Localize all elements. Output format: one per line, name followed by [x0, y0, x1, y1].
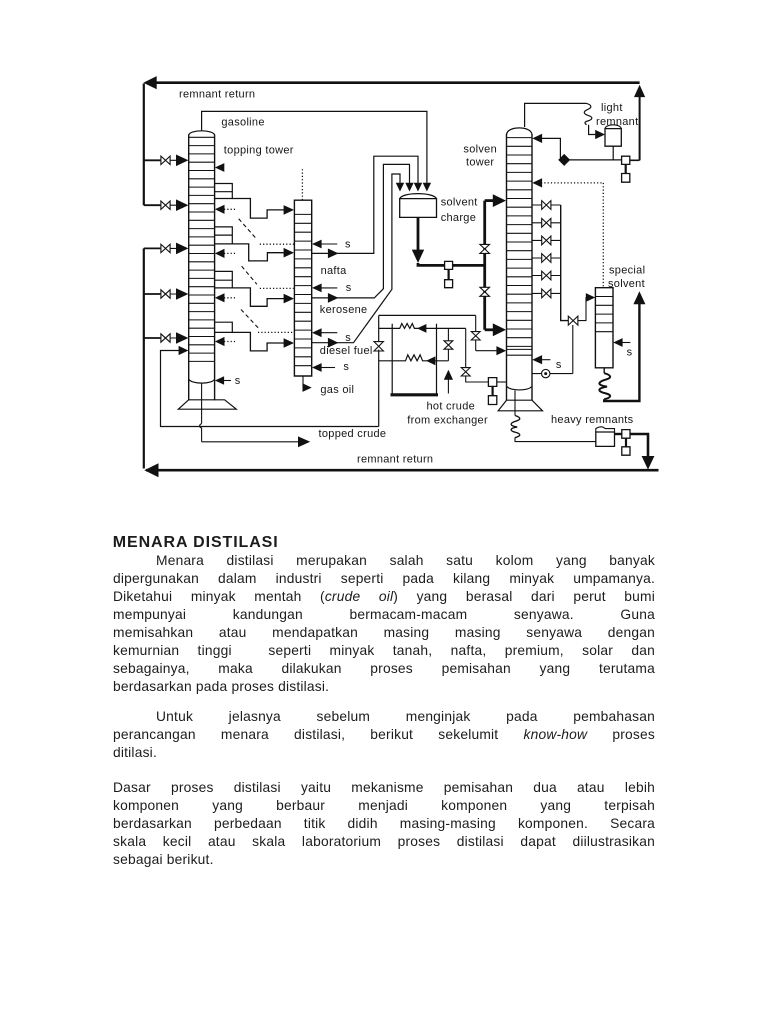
arrow dotted recycle into solven tower	[532, 178, 542, 187]
dotted recycle into solven tower	[541, 183, 603, 288]
wire topped crude run to right	[202, 441, 299, 443]
arrow vapor return 1 into topping tower	[215, 205, 235, 214]
wire header to special solvent column	[578, 298, 589, 321]
wire valve bank tap 4	[532, 257, 561, 259]
wire hot crude inlet	[447, 380, 449, 394]
wire reflux return	[541, 138, 561, 158]
arrow s3 into stripper	[312, 328, 337, 337]
arrow heavy remnants down into bottom header	[642, 456, 655, 470]
dotted vapor run 1 to stripper	[260, 243, 294, 245]
valve V18 topped crude	[374, 342, 383, 351]
seal pot FM2 lower square	[622, 165, 630, 183]
label heavy remnants	[551, 414, 634, 426]
heavy remnants drum D3	[596, 427, 615, 447]
draw-off box A3 on topping tower	[215, 271, 233, 288]
exchanger top pipe	[379, 314, 476, 316]
label solvent charge	[441, 197, 478, 224]
wire light remnant product to riser	[630, 159, 640, 161]
svg-text:hot crude: hot crude	[427, 400, 476, 412]
arrow s into solven tower	[532, 355, 550, 364]
arrow feed A1 into stripper	[284, 205, 294, 215]
svg-text:remnant: remnant	[596, 116, 638, 128]
label special solvent	[608, 265, 645, 290]
wire riser to top remnant return	[639, 97, 641, 160]
svg-text:s: s	[556, 359, 562, 371]
valve V4 left feed 4	[161, 290, 176, 298]
arrow gas oil right	[303, 383, 312, 392]
arrow riser up into top header	[634, 85, 645, 97]
arrow kerosene draw	[328, 293, 339, 303]
topping tower shell	[189, 131, 215, 400]
wire solven bottoms to heavy remnants drum	[515, 438, 596, 442]
wire nafta draw riser	[312, 156, 418, 253]
label kerosene	[320, 304, 368, 316]
arrow s4 into stripper	[312, 363, 335, 372]
arrow remnant-return bottom left	[144, 463, 158, 477]
arrow feed 5 into tower	[176, 332, 188, 344]
wire topping tower bottoms downcomer	[200, 384, 202, 442]
svg-text:solven: solven	[463, 144, 497, 156]
light remnant drum D2	[605, 125, 621, 146]
arrow solvent feed into solven tower lower	[493, 323, 506, 336]
dashed diagonal vapor link 1	[239, 219, 256, 238]
label topped crude	[319, 428, 387, 440]
wire hot crude bypass with valve	[447, 328, 449, 360]
wire draw-off step A1 to stripper	[232, 199, 287, 219]
svg-text:tower: tower	[466, 157, 494, 169]
arrow feed 3 into tower	[176, 243, 188, 255]
svg-text:remnant return: remnant return	[357, 454, 433, 466]
arrow vapor return 4 into topping tower	[215, 337, 235, 346]
arrow s into topping tower bottom	[215, 376, 231, 385]
pump diamond P1	[559, 155, 570, 166]
wire draw-off step A4 to stripper	[232, 332, 287, 351]
label s topping bottom	[235, 375, 241, 387]
dotted vapor run 3 to stripper	[258, 331, 294, 333]
wire remnant-return top header	[150, 81, 640, 84]
valve V11	[542, 254, 551, 263]
solven tower trays	[507, 138, 533, 356]
svg-text:gas oil: gas oil	[320, 384, 354, 396]
svg-text:remnant return: remnant return	[179, 89, 255, 101]
stripper trays	[294, 214, 311, 365]
wire gas oil outlet	[302, 376, 304, 388]
arrow feed A2 into stripper	[284, 248, 294, 258]
dashed diagonal vapor link 2	[242, 266, 257, 284]
special solvent column trays	[595, 297, 613, 332]
dotted stripper overhead	[301, 169, 303, 200]
arrow coil 1 flow	[417, 324, 426, 333]
wire feed branch with valve to tower mid	[475, 315, 477, 332]
valve V8	[542, 201, 551, 210]
svg-text:s: s	[627, 346, 633, 358]
svg-text:special: special	[609, 265, 645, 277]
label s3	[345, 332, 351, 344]
svg-text:s: s	[343, 361, 349, 373]
solven tower shell	[507, 128, 533, 401]
wire side draw up to special solvent feed	[572, 325, 574, 374]
svg-text:from exchanger: from exchanger	[407, 414, 488, 426]
svg-text:nafta: nafta	[321, 265, 348, 277]
svg-text:light: light	[601, 102, 623, 114]
wire valve bank tap 1	[532, 204, 561, 206]
valve V10	[542, 236, 551, 245]
draw-off box A1 on topping tower	[215, 184, 233, 199]
valve V2 left feed 2	[161, 201, 176, 209]
svg-text:solvent: solvent	[441, 197, 478, 209]
svg-text:topping tower: topping tower	[224, 144, 294, 156]
exchanger coil 2	[379, 355, 449, 361]
arrow special solvent product up	[633, 291, 645, 304]
topping tower trays	[189, 137, 215, 361]
arrow hot crude up	[444, 370, 453, 380]
label gasoline	[221, 116, 264, 128]
arrow nafta down into solvent charge	[414, 183, 422, 192]
wire left downcomer upper segment	[143, 84, 145, 206]
solven tower dished bottom	[507, 387, 532, 390]
arrow s into special solvent column	[613, 338, 630, 347]
label s solven	[556, 359, 562, 371]
reboiler squiggle special solvent	[599, 373, 610, 399]
wire solvent charge to feed riser (thick)	[418, 263, 485, 265]
wire to solven tower lower inlet	[466, 375, 489, 382]
flow meter FM1 square	[445, 261, 453, 269]
arrow exchanger feed into solven tower	[496, 346, 506, 355]
seal pot FM1 lower square	[445, 270, 453, 288]
wire special solvent product riser (thick)	[604, 303, 639, 401]
arrow reflux stub into topping tower top	[215, 163, 224, 172]
draw-off box A4 on topping tower	[215, 322, 233, 332]
valve V17 feed branch	[471, 332, 480, 340]
arrow vapor return 2 into topping tower	[215, 249, 235, 258]
valve V5 left feed 5	[161, 334, 176, 342]
wire left downcomer lower segment	[143, 248, 145, 468]
valve V9	[542, 218, 551, 227]
wire valve bank tap 5	[532, 275, 561, 277]
arrow diesel draw	[328, 338, 339, 348]
label s1	[345, 238, 351, 250]
wire special solvent bottoms	[603, 368, 605, 373]
arrow reflux into solven tower	[532, 134, 542, 143]
wire solvent feed upper branch (thick)	[485, 199, 494, 202]
wire valve to feed arrow	[475, 339, 477, 350]
wire exchanger outlet to meter	[465, 328, 467, 368]
stripper column shell	[294, 200, 311, 376]
feed bracket lower left	[144, 248, 161, 338]
flow meter FM3 square	[615, 430, 631, 439]
label remnant return (top)	[179, 89, 255, 101]
valve V12	[542, 271, 551, 280]
special solvent column shell	[595, 288, 613, 368]
orifice meter on solven side draw	[532, 369, 573, 377]
wire solvent feed lower branch (thick)	[485, 328, 494, 331]
label nafta	[321, 265, 348, 277]
wire topped crude return line from valve to tower	[161, 351, 379, 427]
arrow topped crude into topping tower	[179, 346, 189, 355]
label s4	[343, 361, 349, 373]
topping tower dished bottom	[189, 380, 214, 384]
wire gasoline overhead	[202, 111, 427, 183]
wire valve bank tap 6	[532, 292, 561, 294]
wire solven tower feed from exchanger	[476, 350, 498, 352]
arrow remnant-return top left	[143, 76, 156, 89]
label light remnant	[596, 102, 638, 128]
wire light remnant bottoms	[613, 146, 621, 160]
seal pot FM4 lower square	[488, 387, 496, 405]
flow meter FM4 square	[488, 378, 506, 387]
valve V14 header outlet	[568, 316, 578, 325]
wire diesel/topped vertical main	[378, 315, 380, 341]
wire solvent charge bottoms (thick)	[417, 217, 420, 250]
arrow nafta draw	[328, 249, 339, 259]
wire heavy remnants product (thick)	[630, 434, 648, 457]
wire remnant-return bottom header	[146, 469, 659, 472]
valve V15 bypass	[444, 341, 453, 349]
topping tower skirt	[178, 400, 236, 409]
valve V16 exchanger outlet	[461, 368, 470, 376]
dotted vapor run 2 to stripper	[260, 287, 294, 289]
label diesel fuel	[320, 345, 373, 357]
wire condensate into light remnant drum	[589, 125, 597, 135]
condenser squiggle overhead	[584, 103, 592, 124]
wire overhead vapor line	[525, 103, 587, 127]
label solven tower	[463, 144, 497, 169]
svg-text:s: s	[346, 282, 352, 294]
label s2	[346, 282, 352, 294]
label s special	[627, 346, 633, 358]
label topping tower	[224, 144, 294, 156]
exchanger coil 1	[379, 324, 466, 329]
arrow vapor return 3 into topping tower	[215, 293, 235, 302]
label remnant return (bottom)	[357, 454, 433, 466]
wire valve bank tap 3	[532, 239, 561, 241]
arrow s1 into stripper	[312, 240, 337, 249]
svg-text:heavy remnants: heavy remnants	[551, 414, 634, 426]
svg-text:s: s	[235, 375, 241, 387]
arrow feed 2 into tower	[176, 199, 188, 211]
wire kerosene draw riser	[312, 164, 410, 298]
arrow feed 4 into tower	[176, 288, 188, 300]
svg-text:solvent: solvent	[608, 278, 645, 290]
valve V3 left feed 3	[161, 244, 176, 252]
arrow s2 into stripper	[312, 284, 337, 293]
valve V6 on solvent feed riser	[480, 244, 490, 253]
svg-text:topped crude: topped crude	[319, 428, 387, 440]
wire topped crude descent	[378, 350, 380, 427]
arrow feed into special solvent column	[586, 293, 595, 302]
wire solvent feed riser (thick)	[483, 201, 486, 330]
arrow feed A3 into stripper	[284, 294, 294, 304]
label hot crude / from exchanger	[407, 400, 488, 426]
wire draw-off step A3 to stripper	[232, 288, 287, 306]
flow meter FM2 square	[622, 156, 630, 164]
arrow feed A4 into stripper	[284, 338, 294, 348]
reboiler squiggle solven bottoms	[511, 416, 520, 438]
dashed diagonal vapor link 3	[241, 310, 259, 329]
arrow diesel down into solvent charge	[396, 183, 404, 192]
arrow solvent feed into solven tower top	[493, 194, 506, 207]
arrow into light remnant drum	[595, 130, 605, 139]
valve V7 on solvent feed riser	[480, 287, 490, 296]
svg-text:kerosene: kerosene	[320, 304, 368, 316]
arrow topped crude right	[298, 436, 310, 447]
arrow solvent charge down	[412, 250, 424, 263]
solven tower skirt	[498, 400, 542, 411]
draw-off box A2 on topping tower	[215, 227, 233, 244]
exchanger shell walls	[392, 324, 436, 394]
svg-text:s: s	[345, 238, 351, 250]
valve V1 left feed 1	[161, 156, 176, 164]
svg-text:diesel fuel: diesel fuel	[320, 345, 373, 357]
svg-text:charge: charge	[441, 212, 476, 224]
arrow feed 1 into tower	[176, 155, 188, 167]
seal pot FM3 lower square	[622, 438, 630, 455]
wire diesel draw riser	[312, 174, 400, 343]
label gas oil	[320, 384, 354, 396]
wire light remnant to reflux pump	[569, 159, 614, 161]
arrow kerosene down into solvent charge	[405, 183, 413, 192]
svg-text:gasoline: gasoline	[221, 116, 264, 128]
wire draw-off step A2 to stripper	[232, 244, 288, 261]
wire solven tower bottoms	[514, 391, 516, 416]
feed bracket upper left	[144, 160, 161, 205]
arrow coil 2 flow	[426, 356, 435, 365]
valve V13	[542, 289, 551, 298]
exchanger shell bottom (thick)	[391, 393, 439, 396]
wire valve bank tap 2	[532, 222, 561, 224]
wire valve bank header	[561, 205, 568, 321]
arrow gasoline down into solvent charge	[423, 183, 431, 192]
solvent charge drum D1	[400, 194, 437, 218]
